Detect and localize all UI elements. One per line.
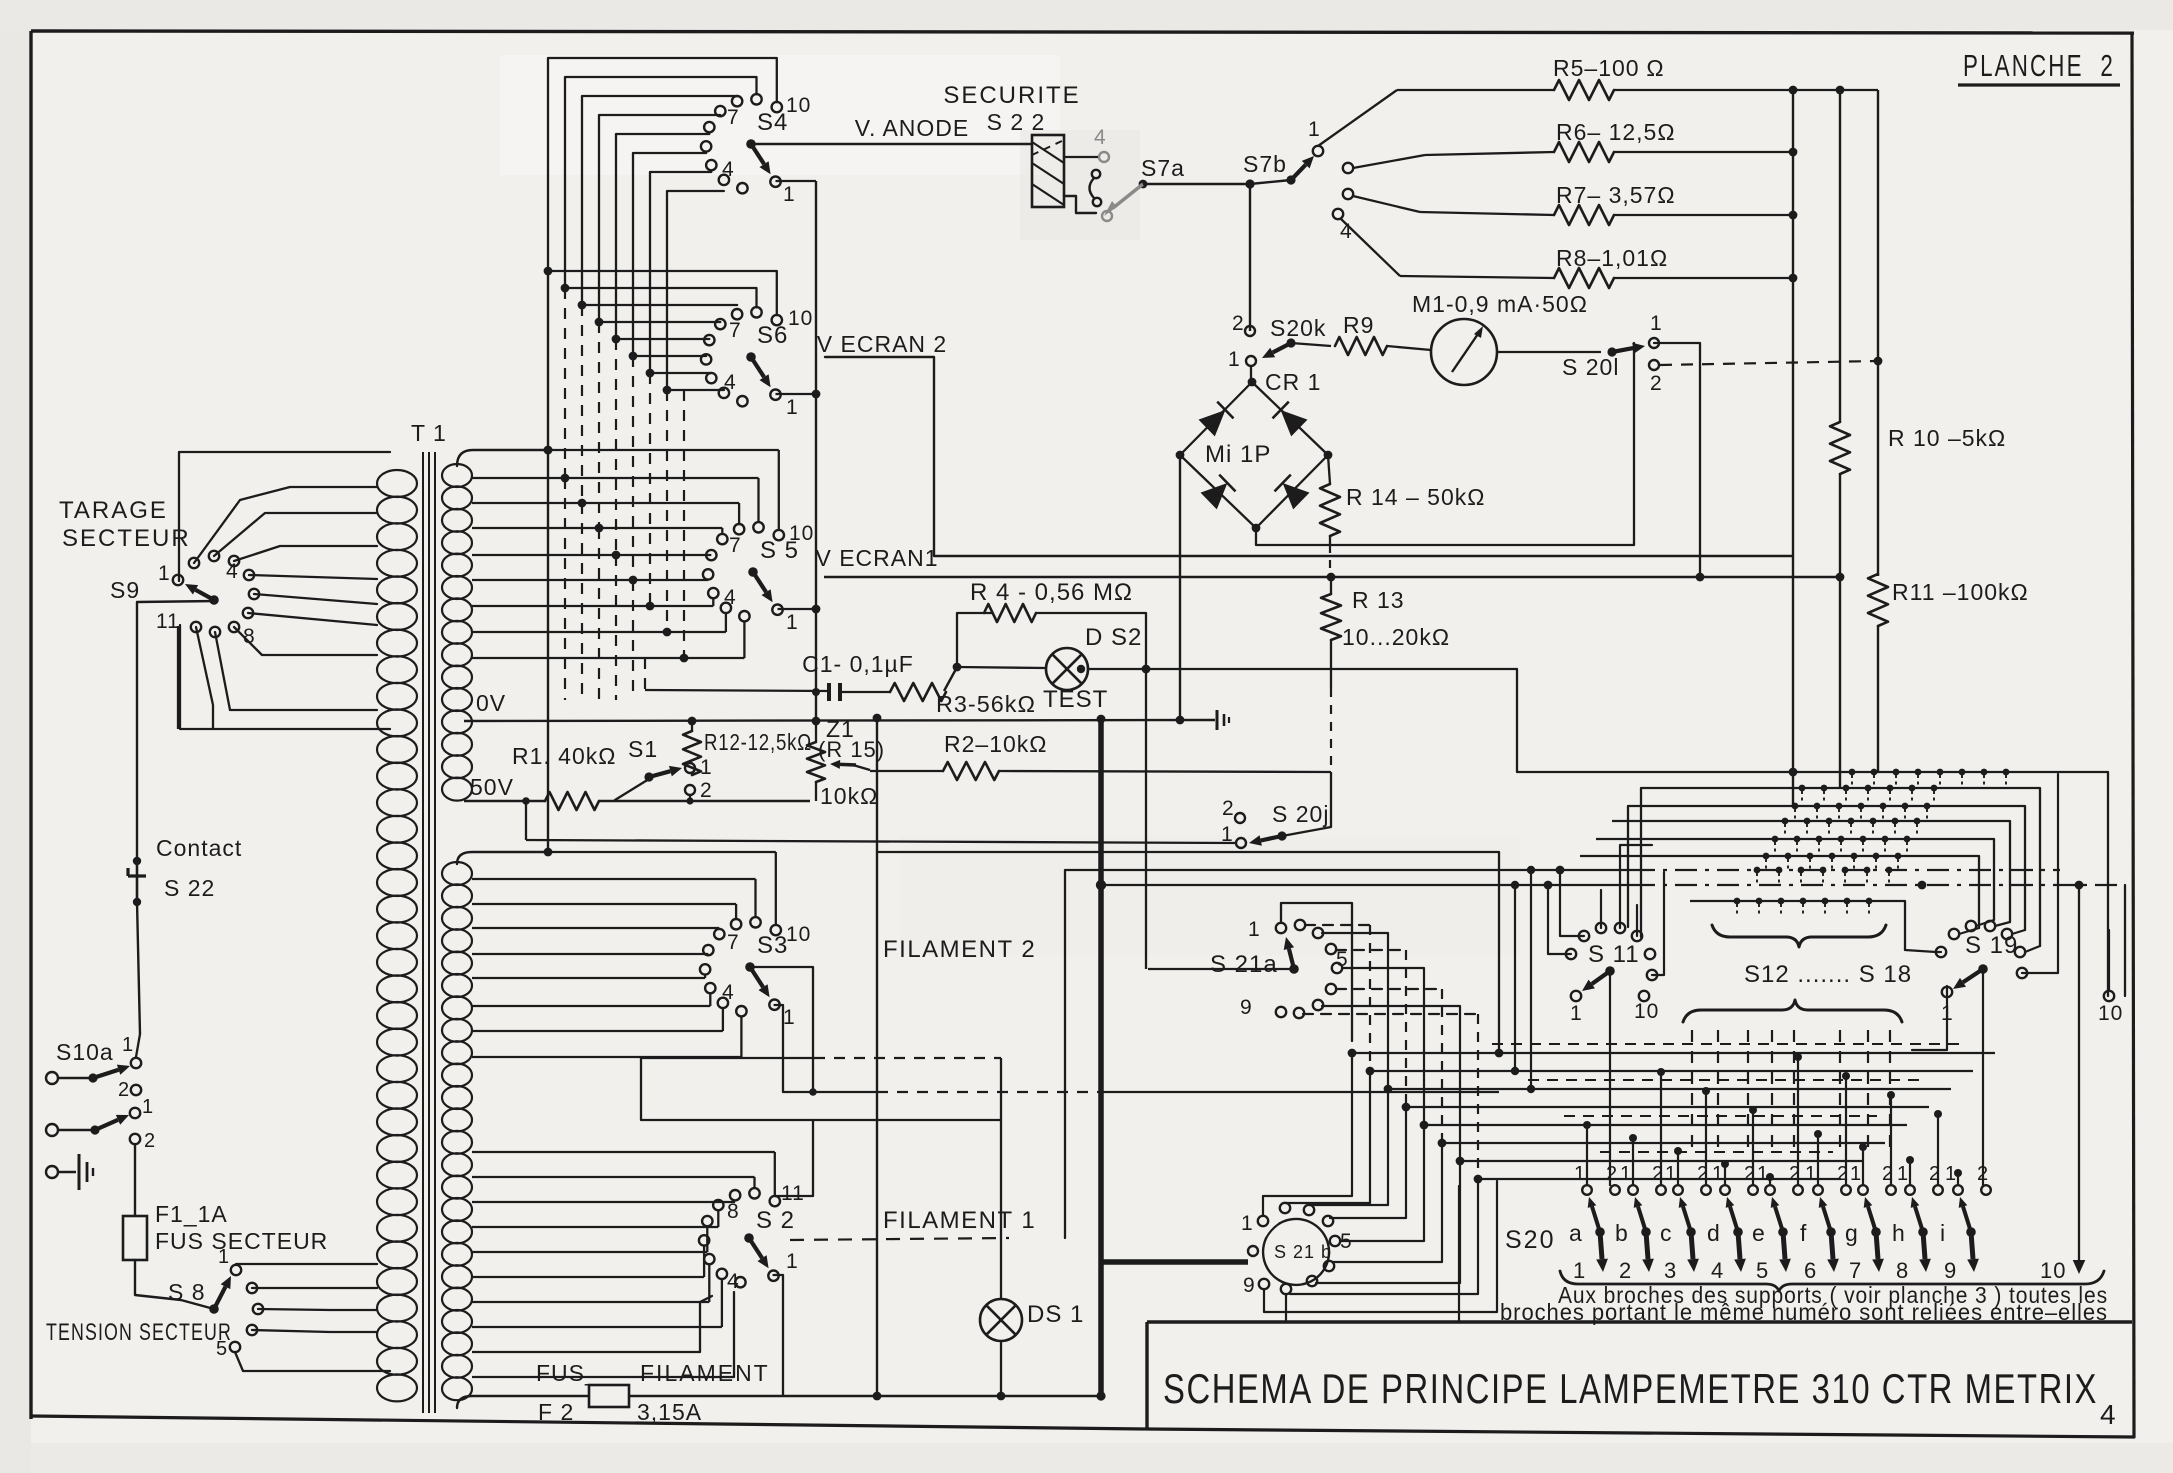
wire bundle verticals S4 to S6: [547, 58, 549, 271]
svg-text:3: 3: [1664, 1258, 1677, 1283]
wire thick TEST line: [1098, 719, 1104, 1396]
svg-text:1: 1: [218, 1246, 230, 1268]
wires S19 feeds: [1912, 986, 1947, 1050]
matrix row 5 pins: [1772, 836, 1779, 843]
svg-text:2: 2: [1744, 1163, 1756, 1185]
svg-text:1: 1: [1650, 312, 1663, 335]
ground symbol near TEST: [1216, 710, 1219, 730]
svg-text:2: 2: [1222, 797, 1235, 820]
svg-text:1: 1: [1665, 1163, 1677, 1185]
svg-text:10: 10: [789, 522, 814, 545]
svg-text:S 2 2: S 2 2: [987, 109, 1046, 135]
wire meter loop: [1654, 343, 1700, 577]
wire S20l contact2 dashed to R11 rail: [1660, 361, 1878, 365]
wire TEST line to matrix: [1517, 669, 1685, 772]
svg-text:2: 2: [1882, 1163, 1894, 1185]
wire FILAMENT1 net: [790, 1238, 1009, 1240]
svg-text:1: 1: [1308, 118, 1321, 141]
svg-text:c: c: [1660, 1220, 1673, 1246]
svg-text:2: 2: [1606, 1163, 1618, 1185]
svg-text:4: 4: [722, 981, 735, 1004]
title box: [1147, 1320, 2132, 1323]
svg-text:10: 10: [2098, 1002, 2123, 1025]
wire bundle lines to S20: [1348, 1049, 1357, 1058]
matrix row 8 pins: [1734, 898, 1741, 905]
wire S2 upper feeds: [641, 1058, 814, 1120]
svg-text:1: 1: [158, 562, 171, 585]
svg-text:f: f: [1800, 1220, 1807, 1246]
svg-text:S 11: S 11: [1588, 941, 1640, 968]
svg-text:2: 2: [1650, 372, 1663, 395]
svg-text:9: 9: [1944, 1258, 1957, 1283]
svg-text:R8–1,01Ω: R8–1,01Ω: [1556, 245, 1668, 271]
svg-text:2: 2: [144, 1130, 156, 1152]
wire S3 contact1 down: [775, 1005, 784, 1092]
svg-text:SECURITE: SECURITE: [943, 82, 1080, 109]
svg-text:FUS_: FUS_: [536, 1360, 599, 1386]
wire S2 contact 11: [775, 1120, 813, 1196]
svg-text:FUS SECTEUR: FUS SECTEUR: [155, 1228, 328, 1254]
svg-text:(R 15): (R 15): [818, 737, 885, 762]
svg-text:F1_1A: F1_1A: [155, 1201, 228, 1227]
svg-text:TEST: TEST: [1043, 686, 1108, 713]
svg-text:7: 7: [727, 931, 740, 954]
svg-text:R7– 3,57Ω: R7– 3,57Ω: [1556, 182, 1676, 208]
svg-text:10: 10: [1634, 1000, 1659, 1023]
svg-text:10: 10: [786, 923, 811, 946]
svg-text:8: 8: [1896, 1258, 1909, 1283]
wire bundle dashed verticals S6 to S5: [564, 288, 566, 478]
svg-text:4: 4: [727, 1270, 740, 1293]
svg-text:S6: S6: [757, 322, 788, 349]
svg-text:4: 4: [724, 371, 737, 394]
svg-text:1: 1: [1241, 1212, 1254, 1235]
svg-text:2: 2: [700, 779, 713, 802]
wire S21b bottom hook: [1264, 1181, 1497, 1312]
wire rail y=869: [1065, 870, 1633, 1238]
svg-text:S4: S4: [757, 109, 788, 136]
svg-text:TARAGE: TARAGE: [59, 497, 168, 524]
svg-text:5: 5: [1756, 1258, 1769, 1283]
wire taps lower remainder: [472, 1351, 700, 1353]
wires S8 fan to primary taps: [236, 1263, 377, 1265]
svg-text:S 20l: S 20l: [1562, 354, 1619, 380]
svg-text:1: 1: [122, 1034, 134, 1056]
ground terminal: [46, 1166, 58, 1178]
svg-text:S1: S1: [628, 736, 658, 762]
svg-text:1: 1: [786, 611, 799, 634]
svg-text:1: 1: [1897, 1163, 1909, 1185]
svg-text:1: 1: [1570, 1002, 1583, 1025]
svg-text:FILAMENT: FILAMENT: [640, 1360, 770, 1386]
wire to fuse F1: [134, 1144, 136, 1216]
wire dashed stubs below S5: [564, 478, 566, 700]
svg-text:SCHEMA DE PRINCIPE LAMPEME: SCHEMA DE PRINCIPE LAMPEMETRE 310 CTR ME…: [1163, 1365, 2098, 1412]
svg-text:R2–10kΩ: R2–10kΩ: [944, 731, 1047, 757]
wire right rails: [1792, 90, 1794, 806]
wire down from S22: [137, 902, 140, 1034]
svg-text:4: 4: [724, 586, 737, 609]
svg-text:1: 1: [1574, 1163, 1586, 1185]
svg-text:broches portant le même num: broches portant le même numéro sont reli…: [1500, 1299, 2108, 1325]
svg-text:S7b: S7b: [1243, 151, 1287, 177]
svg-text:S12 ....... S 18: S12 ....... S 18: [1744, 961, 1912, 988]
matrix row 4 wire: [1612, 820, 1917, 822]
svg-text:C1- 0,1µF: C1- 0,1µF: [802, 651, 914, 677]
matrix row 4 pins: [1782, 818, 1789, 825]
svg-text:FILAMENT 1: FILAMENT 1: [883, 1207, 1036, 1234]
wire bridge bottom loop to S20l: [1252, 524, 1261, 533]
svg-text:S7a: S7a: [1141, 155, 1185, 181]
rotary switch S5: [772, 605, 782, 615]
svg-text:1: 1: [1573, 1258, 1586, 1283]
svg-text:b: b: [1615, 1220, 1629, 1246]
svg-text:Contact: Contact: [156, 835, 242, 861]
svg-text:1: 1: [1248, 918, 1261, 941]
svg-text:10...20kΩ: 10...20kΩ: [1342, 624, 1450, 650]
svg-text:F 2: F 2: [538, 1399, 574, 1425]
svg-text:S10a: S10a: [56, 1039, 114, 1065]
svg-text:V. ANODE: V. ANODE: [855, 115, 970, 141]
transformer T1 secondary winding upper: [442, 464, 472, 487]
diode CR1b: [1281, 410, 1308, 436]
svg-text:R 4 - 0,56 MΩ: R 4 - 0,56 MΩ: [970, 579, 1133, 606]
wire bundle above S4: [548, 58, 777, 102]
wires S11 feeds: [1548, 885, 1571, 954]
matrix row 3 pins: [1792, 803, 1799, 810]
diode CR1d: [1283, 483, 1310, 509]
matrix row 2 wire: [1641, 787, 1934, 789]
svg-text:2: 2: [1619, 1258, 1632, 1283]
rotary switch S6: [770, 390, 780, 400]
svg-text:M1-0,9 mA·50Ω: M1-0,9 mA·50Ω: [1412, 291, 1588, 317]
wire V. ANODE S4 to SECURITE: [751, 143, 1032, 145]
svg-text:4: 4: [2100, 1399, 2117, 1430]
svg-text:11: 11: [156, 610, 180, 633]
wires S21a staircase: [1305, 924, 1370, 926]
wire S20j contact1 to 50V loop: [526, 840, 1236, 843]
svg-text:1: 1: [700, 756, 713, 779]
svg-text:V ECRAN 2: V ECRAN 2: [817, 331, 947, 357]
wire common vertical x=816: [815, 181, 817, 721]
wire S3 rotor output: [750, 967, 813, 1092]
matrix row 5 wire: [1596, 838, 1907, 840]
svg-text:R12-12,5kΩ: R12-12,5kΩ: [704, 729, 812, 755]
matrix row 7 pins: [1754, 867, 1761, 874]
wire S2 rotor FILAMENT1: [748, 1237, 750, 1239]
svg-text:10: 10: [786, 94, 811, 117]
svg-text:2: 2: [118, 1079, 130, 1101]
svg-text:1: 1: [1757, 1163, 1769, 1185]
wire F1 to S8: [135, 1260, 214, 1309]
diode CR1a: [1199, 410, 1226, 436]
SECURITE moving hook: [1092, 170, 1100, 178]
matrix row 3 wire: [1628, 805, 1927, 807]
matrix row 6 pins: [1763, 853, 1770, 860]
svg-text:R6– 12,5Ω: R6– 12,5Ω: [1556, 119, 1676, 145]
svg-text:2: 2: [1977, 1163, 1989, 1185]
svg-text:R 13: R 13: [1352, 587, 1405, 613]
wire 0V rail: [464, 720, 1215, 721]
rotary switch S2: [768, 1271, 778, 1281]
transformer T1 core: [422, 452, 424, 1413]
svg-text:S 21 b: S 21 b: [1274, 1242, 1332, 1262]
svg-text:2: 2: [1789, 1163, 1801, 1185]
matrix row 8 wire: [1690, 900, 1868, 902]
svg-text:11: 11: [781, 1182, 805, 1205]
svg-text:S 21a: S 21a: [1210, 951, 1278, 978]
svg-text:2: 2: [1929, 1163, 1941, 1185]
svg-text:4: 4: [1094, 126, 1106, 149]
rotary switch S4: [770, 177, 780, 187]
svg-text:7: 7: [729, 319, 742, 342]
wire S21a rotor to TEST vertical: [1148, 968, 1290, 970]
svg-text:4: 4: [226, 560, 239, 583]
svg-text:2: 2: [1652, 1163, 1664, 1185]
wire S2 contact1 down to bottom rail: [774, 1275, 784, 1396]
svg-text:8: 8: [727, 1200, 740, 1223]
svg-text:a: a: [1569, 1220, 1583, 1246]
svg-text:CR 1: CR 1: [1265, 369, 1321, 395]
wire vertical x=548 transformer cap to lower section: [547, 450, 549, 852]
dashed pin columns below: [1691, 1030, 1693, 1155]
wire vertical x=1001 through DS1: [1000, 1120, 1002, 1299]
transformer T1 primary winding: [377, 470, 417, 497]
svg-text:S20k: S20k: [1270, 315, 1326, 341]
transformer T1 secondary winding lower: [442, 862, 472, 885]
svg-text:7: 7: [1849, 1258, 1862, 1283]
matrix left feeds: [1640, 788, 1642, 937]
svg-text:R 10 –5kΩ: R 10 –5kΩ: [1888, 425, 2006, 451]
svg-text:TENSION SECTEUR: TENSION SECTEUR: [46, 1319, 232, 1346]
matrix row 2 pins: [1799, 785, 1806, 792]
svg-text:R9: R9: [1343, 312, 1374, 338]
wires S9 fan: [194, 487, 377, 563]
rotary switch S3: [769, 1000, 779, 1010]
svg-text:V ECRAN1: V ECRAN1: [815, 545, 938, 571]
svg-text:1: 1: [142, 1096, 154, 1118]
svg-text:1: 1: [783, 183, 796, 206]
wire S4 contact1 to common vertical: [776, 180, 817, 182]
border frame: [31, 31, 2134, 33]
switch S20j: [1330, 772, 1332, 827]
svg-text:9: 9: [1240, 996, 1253, 1019]
svg-text:g: g: [1845, 1220, 1859, 1246]
fuse F1: [123, 1216, 147, 1260]
svg-text:R1. 40kΩ: R1. 40kΩ: [512, 743, 616, 769]
svg-text:S 2: S 2: [756, 1207, 795, 1234]
svg-text:FILAMENT 2: FILAMENT 2: [883, 936, 1036, 963]
svg-text:R11 –100kΩ: R11 –100kΩ: [1892, 579, 2029, 605]
wire lamp line: [957, 667, 1046, 668]
svg-text:1: 1: [783, 1006, 796, 1029]
svg-text:T 1: T 1: [411, 420, 447, 446]
svg-text:10: 10: [2040, 1258, 2066, 1283]
wire S9 rotor down: [137, 601, 216, 859]
matrix row 1 wire: [1685, 771, 2108, 773]
svg-text:R 14 – 50kΩ: R 14 – 50kΩ: [1346, 484, 1485, 510]
wire FILAMENT2 box top: [877, 852, 1499, 1053]
brace under S20: [1560, 1271, 2104, 1291]
svg-text:DS 1: DS 1: [1027, 1301, 1084, 1328]
wire S21a contact1 loop: [1281, 903, 1352, 1041]
wire S6 contact1: [776, 393, 817, 395]
brace S12-S18 lower: [1683, 1000, 1902, 1022]
svg-text:Mi 1P: Mi 1P: [1205, 441, 1271, 468]
svg-text:S20: S20: [1505, 1226, 1555, 1254]
svg-text:10kΩ: 10kΩ: [820, 783, 878, 809]
wire rail y=885: [1101, 884, 1633, 886]
svg-text:1: 1: [1850, 1163, 1862, 1185]
wires S20 contact feeds: [1586, 1125, 1588, 1185]
svg-text:SECTEUR: SECTEUR: [62, 525, 191, 552]
wire S20k to bridge: [1250, 366, 1252, 382]
svg-text:1: 1: [786, 1250, 799, 1273]
svg-text:S9: S9: [110, 577, 140, 603]
svg-text:R5–100 Ω: R5–100 Ω: [1553, 55, 1665, 81]
wires rails to bundle left verticals: [1514, 885, 1516, 1071]
svg-text:7: 7: [727, 106, 740, 129]
wire S11 rotor down: [1609, 971, 1611, 1186]
svg-text:D S2: D S2: [1085, 624, 1142, 651]
wire rail x=877: [876, 718, 878, 1396]
svg-text:S 22: S 22: [164, 875, 215, 901]
svg-text:2: 2: [1232, 312, 1245, 335]
svg-text:S 20j: S 20j: [1272, 801, 1329, 827]
svg-text:S 19: S 19: [1965, 932, 2018, 959]
wire S19 rotor down: [1982, 969, 1984, 1186]
svg-text:1: 1: [1620, 1163, 1632, 1185]
svg-text:9: 9: [1243, 1274, 1256, 1297]
svg-text:e: e: [1752, 1220, 1766, 1246]
svg-text:1: 1: [786, 396, 799, 419]
svg-text:0V: 0V: [476, 690, 506, 716]
diode CR1c: [1201, 483, 1228, 509]
wires S21b staircase: [1263, 1053, 1352, 1216]
svg-text:50V: 50V: [470, 774, 514, 800]
svg-text:3,15A: 3,15A: [637, 1399, 702, 1425]
svg-text:10: 10: [788, 307, 813, 330]
wire S9 enclosure + fan to primary taps: [179, 452, 390, 581]
wire S6 feed lines: [544, 267, 553, 276]
svg-text:1: 1: [1805, 1163, 1817, 1185]
matrix row 1 pins: [1849, 769, 1856, 776]
svg-text:i: i: [1940, 1220, 1946, 1246]
svg-text:2: 2: [1697, 1163, 1709, 1185]
svg-text:h: h: [1892, 1220, 1906, 1246]
svg-text:1: 1: [1228, 348, 1241, 371]
wire S5 contact1: [778, 608, 817, 610]
svg-text:S3: S3: [757, 932, 788, 959]
svg-text:S 8: S 8: [168, 1279, 206, 1305]
wire S7a to S7b: [1143, 183, 1250, 185]
svg-text:d: d: [1707, 1220, 1721, 1246]
wire rail 1840 down: [1839, 474, 1841, 788]
matrix row 6 wire: [1580, 855, 1898, 857]
svg-text:5: 5: [216, 1338, 228, 1360]
svg-text:2: 2: [1837, 1163, 1849, 1185]
svg-text:7: 7: [729, 534, 742, 557]
wire bridge left vertex down: [1176, 451, 1185, 460]
svg-text:PLANCHE 2: PLANCHE 2: [1963, 48, 2115, 83]
transformer lower taps to S2: [472, 1151, 775, 1153]
svg-text:4: 4: [722, 158, 735, 181]
dashed companion lines: [1492, 1043, 1965, 1045]
svg-text:4: 4: [1711, 1258, 1724, 1283]
wire bottom rail: [457, 1396, 589, 1408]
transformer lower taps to S3: [548, 851, 776, 853]
svg-text:R3-56kΩ: R3-56kΩ: [936, 691, 1036, 717]
brace under matrix: [1712, 925, 1886, 947]
wire S7b junction down to S20k: [1249, 184, 1251, 331]
transformer upper secondary taps / S5 feed lines: [457, 450, 548, 466]
svg-text:6: 6: [1804, 1258, 1817, 1283]
